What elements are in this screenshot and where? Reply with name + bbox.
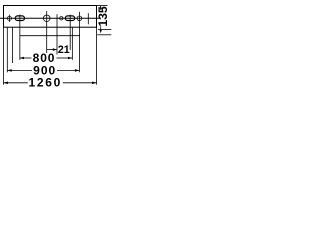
center line [0, 17, 100, 19]
center mark through left slot, extended down [19, 15, 21, 60]
small plain circle [60, 17, 63, 20]
arrowhead 1260 left [4, 82, 8, 85]
arrowhead 135 top [100, 6, 102, 9]
large center circle [43, 15, 50, 22]
slot pitch line [20, 35, 80, 37]
extension line near 800 left [11, 27, 13, 63]
right circle with center mark [77, 16, 82, 21]
extension line 1260 right (right edge extended) [96, 27, 98, 84]
extension line / tick at x=57 [56, 14, 58, 54]
900 dimension line [7, 69, 79, 71]
tick mark on center line right section [87, 13, 89, 24]
21 dim arrow [47, 49, 57, 51]
mounting slot left [15, 16, 24, 21]
center mark through right slot down [69, 15, 71, 50]
mounting hole circle left [7, 16, 11, 20]
extension line through right circle down to 900 row [78, 12, 80, 73]
arrowhead 800 right [68, 57, 72, 60]
svg-text:1260: 1260 [29, 76, 63, 90]
arrowhead 900 right [75, 69, 79, 72]
svg-text:21: 21 [58, 44, 70, 56]
arrowhead 800 left [20, 57, 24, 60]
extension line 1260 left (left edge extended) [3, 27, 5, 84]
800 dimension line [20, 57, 73, 59]
1260 dimension line [4, 82, 97, 84]
extension line 900 left [6, 27, 8, 72]
fixture body outline [4, 6, 97, 28]
extension line 800 right [71, 27, 73, 60]
arrowhead 135 bottom [100, 30, 102, 33]
center mark through left circle [8, 15, 10, 22]
135 dimension ticks and extension lines [97, 6, 112, 35]
arrowhead 1260 right [92, 82, 96, 85]
svg-text:135: 135 [96, 6, 110, 27]
mounting slot right [65, 16, 74, 21]
extension line from center circle down to 21-dim row [46, 11, 48, 53]
arrowhead 900 left [7, 69, 11, 72]
arrowhead 21 [53, 48, 57, 51]
